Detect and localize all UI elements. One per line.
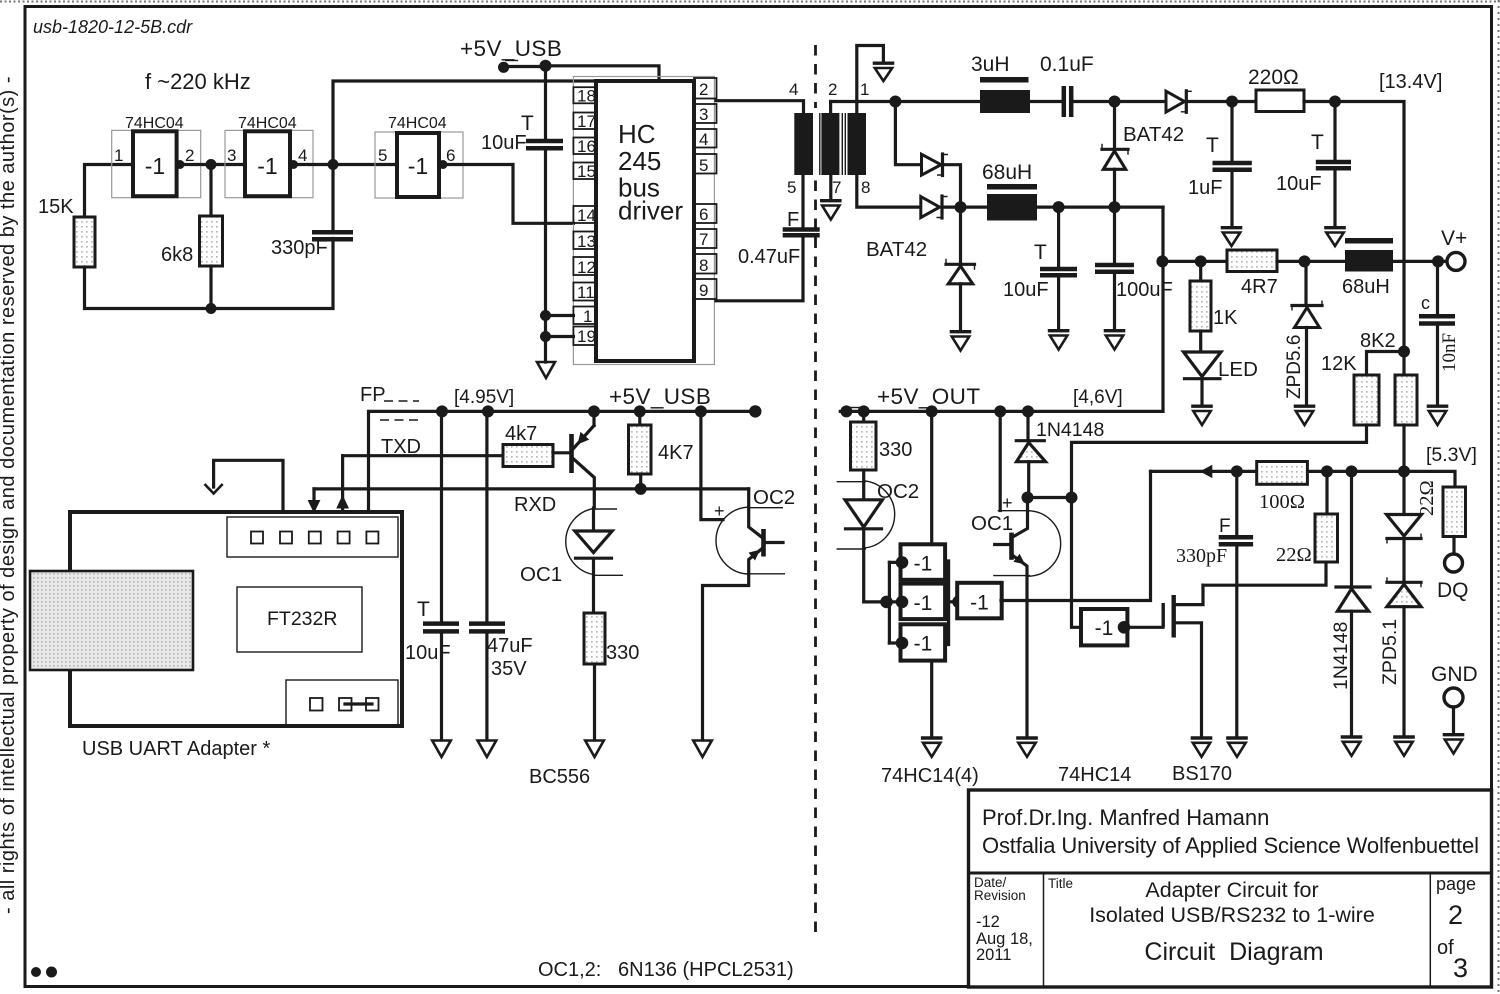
resistor R11 330 bbox=[851, 411, 913, 499]
zener D10 ZPD5.1 pair upper bbox=[1387, 471, 1422, 580]
ground under 10nF bbox=[1427, 406, 1449, 425]
svg-text:-1: -1 bbox=[257, 153, 277, 179]
inductor L3 68uH output bbox=[1342, 238, 1393, 298]
node junction D3 branch bbox=[1109, 96, 1121, 108]
wire collector cross link bbox=[1028, 496, 1072, 499]
capacitor 0.47uF F bbox=[738, 209, 820, 268]
wire bottom rail bbox=[85, 239, 334, 309]
pin 9 bbox=[694, 279, 717, 299]
svg-text:1: 1 bbox=[860, 80, 869, 99]
pin 3 bbox=[694, 104, 717, 123]
svg-text:22Ω: 22Ω bbox=[1416, 480, 1438, 516]
svg-text:5: 5 bbox=[787, 178, 796, 197]
svg-text:6k8: 6k8 bbox=[161, 244, 193, 266]
pin 16 bbox=[573, 138, 596, 155]
pin 18 bbox=[573, 87, 596, 103]
wire feedback to gate5 bbox=[1072, 498, 1082, 628]
inverter U3D -1 bbox=[957, 583, 1002, 619]
svg-text:15K: 15K bbox=[38, 196, 74, 218]
capacitor C5 1uF tantalum bbox=[1188, 102, 1252, 227]
svg-text:22Ω: 22Ω bbox=[1276, 544, 1312, 566]
svg-text:T: T bbox=[417, 598, 430, 621]
ground under 10uF bbox=[1324, 228, 1346, 246]
wire 15K top to inverter1 input bbox=[85, 165, 134, 218]
wire +5V rail lower bbox=[369, 411, 756, 512]
wire node to BAT42 D1 bbox=[895, 102, 921, 165]
svg-text:5: 5 bbox=[378, 146, 387, 165]
resistor R3 220R bbox=[1256, 90, 1304, 112]
wire RXD bbox=[314, 487, 749, 490]
wire y207 corner down to +5V_OUT corner bbox=[840, 207, 1163, 411]
capacitor 330pF bbox=[312, 230, 353, 235]
wire secondary rail to 3uH bbox=[831, 100, 980, 103]
node junction 12K tap bbox=[1398, 346, 1410, 358]
terminal DQ bbox=[1445, 554, 1463, 572]
inverter U4 -1 74HC14 bbox=[1081, 609, 1130, 645]
svg-text:OC2: OC2 bbox=[753, 486, 795, 509]
wire pin19 stub bbox=[546, 335, 574, 338]
IC U2 HC245 bus driver bbox=[573, 77, 714, 365]
svg-text:f ~220 kHz: f ~220 kHz bbox=[145, 69, 251, 94]
svg-text:3uH: 3uH bbox=[971, 53, 1010, 76]
capacitor C10 10uF tantalum left bbox=[405, 411, 459, 740]
gate cluster output bus bbox=[947, 561, 950, 645]
wire inverter3 out to HC245 pin14 bbox=[439, 165, 573, 224]
svg-text:+5V_USB: +5V_USB bbox=[609, 384, 711, 409]
svg-text:47uF: 47uF bbox=[487, 635, 533, 657]
svg-text:8: 8 bbox=[861, 178, 870, 197]
svg-text:TXD: TXD bbox=[381, 436, 421, 458]
pin 1 bbox=[573, 307, 596, 325]
transformer T1 winding pin2/7 bbox=[821, 113, 839, 175]
resistor 15K bbox=[74, 217, 95, 267]
wire pin2 riser to secondary rail bbox=[829, 102, 832, 114]
svg-text:2011: 2011 bbox=[976, 946, 1011, 964]
terminal +5V_OUT end bbox=[840, 405, 852, 417]
svg-text:F: F bbox=[787, 209, 799, 231]
svg-text:4K7: 4K7 bbox=[658, 442, 694, 464]
capacitor 10uF tantalum at chip bbox=[481, 112, 563, 154]
resistor R4 4R7 bbox=[1227, 250, 1277, 272]
bottom-left registration dots bbox=[31, 967, 41, 977]
adapter USB connector bbox=[30, 571, 193, 670]
inverter U3A -1 bbox=[896, 544, 945, 580]
svg-text:3: 3 bbox=[699, 105, 708, 124]
wire 330pF top branch to feedback rail bbox=[333, 81, 596, 165]
optocoupler OC2 left bbox=[703, 486, 796, 740]
svg-text:FT232R: FT232R bbox=[267, 608, 337, 630]
wire pin1 riser to top ground bbox=[857, 46, 884, 114]
wire adapter aux pin with down arrow bbox=[214, 460, 283, 512]
svg-text:HC: HC bbox=[618, 119, 656, 149]
svg-text:-12: -12 bbox=[976, 913, 1000, 931]
node junction 1N4148 top bbox=[1022, 405, 1034, 417]
svg-text:1N4148: 1N4148 bbox=[1330, 622, 1352, 690]
svg-text:OC1,2: 6N136 (HPCL2531): OC1,2: 6N136 (HPCL2531) bbox=[538, 959, 794, 981]
node junction 330 top bbox=[858, 405, 870, 417]
svg-text:12: 12 bbox=[577, 258, 596, 277]
wire transformer pin5 to 0.47uF bbox=[801, 175, 804, 228]
node junction 330pF branch bbox=[328, 159, 339, 170]
node junction ZPD5.6 branch bbox=[1299, 255, 1311, 267]
node junction 100uF branch bbox=[1109, 201, 1121, 213]
wire 220R to corner 13.4V bbox=[1304, 102, 1404, 376]
svg-text:10uF: 10uF bbox=[1276, 173, 1322, 195]
svg-text:V+: V+ bbox=[1441, 227, 1467, 250]
ground under D11 bbox=[1393, 737, 1415, 756]
node junction 4K7 top bbox=[634, 405, 646, 417]
svg-text:OC1: OC1 bbox=[971, 512, 1013, 535]
pin 19 bbox=[573, 327, 596, 346]
resistor 6k8 bbox=[200, 216, 223, 266]
pin 8 bbox=[694, 254, 717, 274]
node junction OC1 supply bbox=[994, 405, 1006, 417]
node junction ZPD5.1 tap bbox=[1398, 465, 1410, 477]
ground under LED bbox=[1191, 406, 1213, 425]
inverter U3C -1 bbox=[896, 624, 945, 660]
svg-text:Adapter Circuit for: Adapter Circuit for bbox=[1145, 878, 1318, 902]
resistor R10 330 bbox=[584, 613, 605, 664]
title block frame bbox=[969, 790, 1492, 987]
svg-text:[4.95V]: [4.95V] bbox=[454, 387, 514, 408]
svg-text:0.1uF: 0.1uF bbox=[1040, 53, 1094, 76]
node junction BC556 emitter bbox=[588, 405, 600, 417]
wire 8K2 bottom bbox=[1402, 425, 1405, 472]
svg-text:-1: -1 bbox=[408, 153, 428, 179]
pin 5 bbox=[694, 154, 717, 174]
svg-text:-1: -1 bbox=[914, 633, 933, 656]
svg-text:35V: 35V bbox=[491, 658, 527, 680]
svg-text:68uH: 68uH bbox=[982, 161, 1032, 184]
diode D1 BAT42 bbox=[922, 154, 949, 176]
svg-text:Ostfalia University of Applied: Ostfalia University of Applied Science W… bbox=[982, 833, 1479, 858]
ground under ZPD5.6 bbox=[1294, 406, 1316, 425]
wire 12K top bbox=[1367, 352, 1405, 376]
wire node to 68uH bbox=[961, 206, 988, 209]
svg-text:RXD: RXD bbox=[514, 494, 556, 516]
svg-text:-1: -1 bbox=[970, 592, 989, 615]
node junction diode outputs bbox=[955, 201, 967, 213]
capacitor C9 10nF bbox=[1419, 261, 1460, 404]
node junction 1K branch bbox=[1195, 255, 1207, 267]
wire drain rail bbox=[1203, 562, 1326, 585]
svg-text:-1: -1 bbox=[1095, 617, 1114, 640]
svg-text:[5.3V]: [5.3V] bbox=[1426, 444, 1477, 466]
zener D11 ZPD5.1 pair lower bbox=[1379, 577, 1421, 735]
svg-text:BC556: BC556 bbox=[529, 766, 590, 788]
svg-text:BS170: BS170 bbox=[1172, 763, 1232, 785]
svg-text:ZPD5.1: ZPD5.1 bbox=[1379, 619, 1401, 685]
adapter jumper block bbox=[286, 680, 398, 726]
ground under OC1 emitter bbox=[1016, 738, 1038, 757]
svg-text:BAT42: BAT42 bbox=[1123, 123, 1184, 146]
svg-text:T: T bbox=[1034, 241, 1047, 264]
wire inverter1 out to inverter2 in bbox=[177, 163, 245, 166]
node junction gate supply bbox=[926, 405, 938, 417]
svg-text:1: 1 bbox=[114, 146, 123, 165]
svg-text:1K: 1K bbox=[1213, 307, 1238, 329]
svg-text:5: 5 bbox=[699, 156, 708, 175]
wire 330 to ground bbox=[593, 664, 596, 740]
svg-text:Prof.Dr.Ing. Manfred Hamann: Prof.Dr.Ing. Manfred Hamann bbox=[982, 805, 1269, 830]
terminal +5V_USB bbox=[498, 62, 509, 73]
node junction 22R tap bbox=[1321, 465, 1333, 477]
wire TXD arrow into adapter bbox=[341, 456, 344, 512]
wire 3uH to 0.1uF bbox=[1030, 100, 1062, 103]
svg-text:74HC04: 74HC04 bbox=[388, 115, 447, 132]
svg-text:USB UART Adapter *: USB UART Adapter * bbox=[82, 738, 270, 760]
wire 0.47uF to HC245 pin9 bbox=[716, 237, 803, 301]
node junction 330pF tap bbox=[1231, 465, 1243, 477]
ground under C7 bbox=[1048, 331, 1070, 350]
svg-text:10uF: 10uF bbox=[481, 132, 527, 154]
svg-text:245: 245 bbox=[618, 146, 661, 176]
pin 7 bbox=[694, 229, 717, 248]
wire TXD bbox=[343, 454, 503, 457]
arrow direction marker bbox=[1200, 465, 1213, 478]
wire 12K bottom to feedback bbox=[1072, 425, 1367, 498]
FP dashed marks bbox=[380, 401, 419, 420]
ground under gate cluster bbox=[921, 738, 943, 757]
svg-text:1: 1 bbox=[583, 307, 592, 326]
node junction 1uF branch bbox=[1226, 96, 1238, 108]
page right dotted edge bbox=[1498, 0, 1500, 994]
svg-text:330pF: 330pF bbox=[1176, 545, 1227, 567]
svg-text:7: 7 bbox=[832, 178, 841, 197]
ground under D5 bbox=[950, 332, 972, 351]
terminal +5V_USB rail end bbox=[749, 405, 761, 417]
svg-text:74HC14(4): 74HC14(4) bbox=[881, 765, 979, 787]
svg-text:17: 17 bbox=[577, 112, 596, 131]
pin 17 bbox=[573, 113, 596, 130]
diode D2 BAT42 bbox=[921, 196, 948, 218]
svg-text:2: 2 bbox=[699, 80, 708, 99]
wire 4k7 to base bbox=[553, 451, 569, 454]
optocoupler OC1 right bbox=[971, 498, 1061, 737]
wire D4 to 220R bbox=[1186, 100, 1256, 103]
svg-text:3: 3 bbox=[227, 146, 236, 165]
node junction 6k8 top bbox=[206, 159, 217, 170]
node junction 6k8 bottom bbox=[206, 303, 217, 314]
svg-text:1uF: 1uF bbox=[1188, 177, 1222, 199]
svg-text:Circuit Diagram: Circuit Diagram bbox=[1144, 938, 1323, 966]
svg-text:4: 4 bbox=[789, 80, 798, 99]
resistor R8 4k7 base bbox=[503, 445, 553, 467]
svg-text:T: T bbox=[1206, 134, 1219, 157]
svg-text:Revision: Revision bbox=[974, 888, 1026, 903]
capacitor C11 47uF bbox=[469, 411, 533, 740]
ground under 330 bbox=[585, 741, 604, 758]
node junction 10uF mid branch bbox=[1053, 201, 1065, 213]
resistor R7 8K2 bbox=[1395, 375, 1417, 425]
node junction 4R7 rail tap bbox=[1156, 255, 1168, 267]
svg-text:LED: LED bbox=[1218, 358, 1258, 381]
node junction 1N4148 tap bbox=[1346, 465, 1358, 477]
inverter U3B -1 bbox=[880, 584, 945, 620]
svg-text:GND: GND bbox=[1431, 663, 1478, 686]
diode D5 BAT42 shunt bbox=[946, 259, 975, 284]
inverter U1B 74HC04 bbox=[225, 115, 313, 198]
svg-text:15: 15 bbox=[577, 162, 596, 181]
svg-text:330: 330 bbox=[606, 642, 639, 664]
ground under C11 bbox=[478, 741, 497, 758]
resistor R13 22R pullup bbox=[1276, 471, 1338, 566]
ground under chip bbox=[537, 362, 555, 378]
ground under D9 bbox=[1341, 737, 1363, 756]
optocoupler OC2 right LED bbox=[837, 480, 920, 602]
diode D3 BAT42 shunt bbox=[1102, 144, 1128, 170]
ground under 1uF bbox=[1221, 228, 1243, 246]
svg-text:Isolated USB/RS232 to 1-wire: Isolated USB/RS232 to 1-wire bbox=[1089, 903, 1375, 927]
svg-text:0.47uF: 0.47uF bbox=[738, 246, 800, 268]
pin 6 bbox=[694, 204, 717, 223]
svg-text:4k7: 4k7 bbox=[505, 423, 537, 445]
pin 14 bbox=[573, 206, 596, 223]
svg-text:[13.4V]: [13.4V] bbox=[1379, 71, 1442, 93]
wire 6k8 bottom bbox=[209, 266, 212, 309]
svg-text:10nF: 10nF bbox=[1439, 333, 1460, 372]
wire inverter2 out to inverter3 in bbox=[290, 163, 397, 166]
svg-text:12K: 12K bbox=[1321, 353, 1357, 375]
svg-text:BAT42: BAT42 bbox=[866, 238, 927, 261]
USB UART adapter module box bbox=[70, 512, 402, 726]
node junction OC2 anode branch bbox=[695, 405, 707, 417]
svg-text:18: 18 bbox=[577, 87, 596, 106]
resistor R12 100R bbox=[1257, 462, 1308, 485]
svg-text:11: 11 bbox=[577, 283, 595, 302]
wire OC2 anode from +5V bbox=[701, 411, 723, 519]
node junction BAT42 branch bbox=[889, 96, 901, 108]
svg-text:+5V_USB: +5V_USB bbox=[460, 36, 562, 61]
pin 13 bbox=[573, 232, 596, 250]
transformer core lines bbox=[819, 113, 821, 175]
wire node to 4R7 bbox=[1163, 260, 1227, 263]
page top dotted edge bbox=[0, 1, 1500, 3]
svg-text:[4,6V]: [4,6V] bbox=[1073, 387, 1123, 408]
wire pin1 stub bbox=[546, 314, 574, 317]
svg-text:T: T bbox=[1311, 131, 1324, 154]
capacitor C8 100uF bbox=[1095, 207, 1173, 329]
svg-text:+5V_OUT: +5V_OUT bbox=[877, 384, 980, 409]
optocoupler OC1 left bbox=[520, 508, 623, 613]
wire node down to D3 bbox=[1113, 102, 1116, 148]
ground at pin7 bbox=[820, 201, 842, 220]
svg-text:-1: -1 bbox=[914, 553, 933, 576]
wire 4R7 to 68uH2 bbox=[1277, 260, 1345, 263]
pin 11 bbox=[573, 283, 596, 301]
svg-text:10uF: 10uF bbox=[405, 642, 451, 664]
svg-text:6: 6 bbox=[446, 146, 455, 165]
svg-text:74HC14: 74HC14 bbox=[1058, 764, 1131, 786]
svg-text:page: page bbox=[1436, 874, 1476, 894]
inverter U1A 74HC04 bbox=[112, 115, 201, 198]
diode D9 1N4148 clamp bbox=[1330, 471, 1370, 735]
svg-text:100Ω: 100Ω bbox=[1259, 491, 1305, 513]
wire HC245 pin2 to transformer pin4 bbox=[716, 101, 804, 113]
inductor L2 68uH bbox=[982, 161, 1037, 221]
node junction 47uF branch bbox=[482, 405, 494, 417]
ground under 100uF bbox=[1104, 331, 1126, 350]
svg-text:2: 2 bbox=[185, 146, 194, 165]
capacitor C6 10uF tantalum bbox=[1276, 102, 1351, 227]
svg-text:6: 6 bbox=[699, 205, 708, 224]
wire 0.1uF to D4 bbox=[1073, 100, 1166, 103]
svg-text:DQ: DQ bbox=[1437, 579, 1469, 602]
svg-text:68uH: 68uH bbox=[1342, 276, 1390, 298]
svg-text:F: F bbox=[1219, 516, 1231, 537]
wire 22R to DQ bbox=[1452, 537, 1455, 555]
transistor Q1 BC556 bbox=[572, 411, 595, 508]
svg-text:ZPD5.6: ZPD5.6 bbox=[1284, 335, 1305, 399]
node junction 10uF branch bbox=[436, 405, 448, 417]
pin 12 bbox=[573, 257, 596, 275]
svg-text:13: 13 bbox=[577, 232, 596, 251]
transistor Q2 BS170 bbox=[1163, 585, 1203, 736]
resistor R5 1K bbox=[1190, 261, 1238, 352]
svg-text:of: of bbox=[1437, 937, 1454, 959]
svg-text:+: + bbox=[714, 501, 725, 521]
node junction OC1 collector bbox=[1022, 492, 1034, 504]
svg-text:2: 2 bbox=[1448, 900, 1463, 930]
wire D3 to y207 rail bbox=[1113, 169, 1116, 207]
ground at pin1 top bbox=[873, 63, 895, 81]
wire gate5 to BS170 gate bbox=[1127, 626, 1163, 629]
zener D7 ZPD5.6 bbox=[1284, 261, 1322, 404]
svg-text:Title: Title bbox=[1048, 876, 1073, 891]
pin 15 bbox=[573, 163, 596, 180]
ground under BS170 source bbox=[1191, 738, 1213, 757]
diode D4 BAT42 series bbox=[1166, 91, 1192, 113]
svg-text:FP: FP bbox=[360, 384, 386, 406]
svg-text:10uF: 10uF bbox=[1003, 279, 1049, 301]
svg-text:330pF: 330pF bbox=[271, 237, 328, 259]
svg-text:8K2: 8K2 bbox=[1360, 330, 1396, 352]
svg-text:- all rights of intellectual p: - all rights of intellectual property of… bbox=[0, 76, 19, 914]
svg-text:74HC04: 74HC04 bbox=[125, 115, 184, 132]
node junction 4K7 bottom on RXD bbox=[635, 483, 647, 495]
transformer T1 winding pin4/5 bbox=[794, 113, 813, 175]
adapter top pin header bbox=[227, 517, 398, 557]
svg-text:OC1: OC1 bbox=[520, 563, 562, 586]
capacitor C4 0.1uF bbox=[1040, 53, 1094, 117]
svg-text:4: 4 bbox=[699, 130, 708, 149]
wire gate supply column bbox=[930, 411, 933, 737]
ground under C10 bbox=[432, 741, 451, 758]
wire RXD arrow into adapter bbox=[312, 489, 315, 512]
inductor L1 3uH bbox=[971, 53, 1030, 113]
wire +5V_USB to chip vcc bbox=[504, 66, 659, 80]
svg-text:driver: driver bbox=[618, 196, 683, 226]
svg-text:220Ω: 220Ω bbox=[1248, 66, 1299, 89]
svg-text:2: 2 bbox=[828, 80, 837, 99]
svg-text:-1: -1 bbox=[145, 153, 165, 179]
svg-text:c: c bbox=[1421, 293, 1430, 313]
node junction 10uF branch bbox=[1329, 96, 1341, 108]
pin 4 bbox=[694, 129, 717, 148]
svg-text:-1: -1 bbox=[914, 592, 933, 615]
svg-text:9: 9 bbox=[699, 281, 708, 300]
svg-text:3: 3 bbox=[1453, 953, 1468, 983]
svg-text:16: 16 bbox=[577, 137, 596, 156]
node junction 10nF branch bbox=[1432, 255, 1444, 267]
svg-text:1N4148: 1N4148 bbox=[1036, 419, 1104, 441]
gate cluster input bus bbox=[888, 562, 891, 643]
pin 2 bbox=[694, 78, 717, 99]
resistor R9 4K7 pullup bbox=[629, 411, 694, 489]
wire D2 cathode to node bbox=[942, 206, 961, 209]
wire cluster out to gate4 bbox=[945, 600, 957, 603]
ground under GND terminal bbox=[1443, 735, 1465, 754]
